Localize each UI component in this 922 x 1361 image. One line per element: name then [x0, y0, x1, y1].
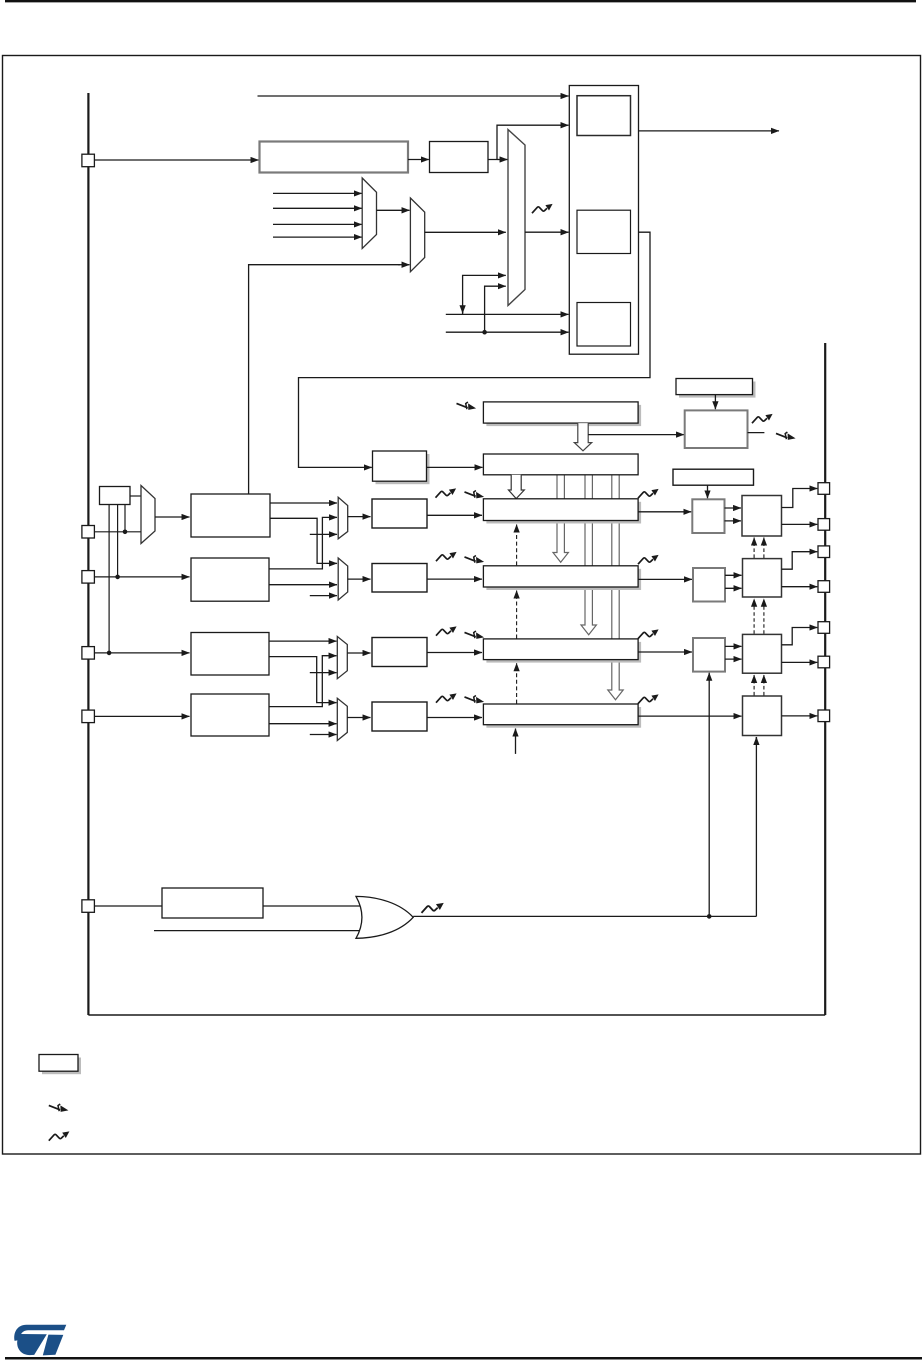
box: inner register top [577, 96, 631, 136]
wire: row C to T4 [638, 511, 691, 513]
box: T5 output stage [742, 496, 782, 537]
box: F5 output stage [743, 696, 782, 736]
pin square L1 [82, 154, 95, 167]
box: trigger/slave mode controller outer [569, 86, 638, 355]
page top rule [5, 0, 916, 2]
big arrows: row B down to rows D E F [553, 475, 568, 563]
icon: lightning right of T2 [776, 432, 796, 440]
wire: OR gate lower stub input [154, 930, 361, 932]
wire: mux1 to mux2 [377, 209, 410, 211]
mux: TRGI select trapezoid [410, 198, 424, 272]
wire: pin1 to box R1 [95, 159, 259, 161]
dashed pair into E5 bottom [753, 675, 755, 696]
wire: stage3 out1 to mux R3 [269, 640, 337, 642]
icon: wave right of row E [638, 629, 659, 638]
mux: R2 trapezoid [338, 558, 348, 600]
wire: OR output line [413, 915, 756, 917]
wire: internal clock line into trigger controller [258, 95, 569, 97]
wire: stage3 out2 down to mux R4 [269, 657, 328, 703]
legend: register box sample (with shadow) [39, 1055, 81, 1075]
junction dot [482, 330, 487, 335]
pin square L3 [82, 571, 95, 584]
mux: ITR select trapezoid [362, 178, 376, 249]
pin square P6 [818, 656, 830, 668]
wire: stage2 out2 to mux R2 [269, 584, 337, 586]
pin square L2 [82, 526, 95, 539]
wire: D5 out to pin P4 [782, 586, 818, 588]
wire: TRC stub to R3 [310, 672, 337, 674]
left bus rail [87, 93, 89, 1015]
icon: wave right of row C [638, 489, 659, 498]
dashed pair into T5 bottom [753, 538, 755, 559]
wire: R1 to prescaler 1 [348, 516, 371, 518]
wire: stage1 out1 to mux R1 [270, 502, 337, 504]
box: inner register middle [577, 210, 631, 253]
wire: mux2 to big mux [425, 231, 506, 233]
wire: T5 out to pin P2 [782, 523, 818, 525]
box: prescaler 3 [372, 638, 427, 667]
dashed feedback row E to row D [516, 591, 518, 639]
wire: edge line B to big mux [485, 286, 498, 332]
pin square L4 [82, 647, 95, 660]
icon: lightning left of row E [465, 631, 485, 639]
wire: R1 to R2 [408, 159, 429, 161]
dashed pair into D5 bottom [753, 599, 755, 634]
wire: ITR0 [273, 192, 362, 194]
wire: edge line A to big mux [463, 275, 498, 314]
legend: wave icon [49, 1131, 70, 1140]
box: row A register (with shadow) [483, 402, 641, 426]
junction dots on channel lines [107, 651, 112, 656]
wire: XOR taps down [108, 505, 110, 653]
box: T2 (gray border) [685, 410, 748, 448]
icon: wave left of row E [436, 626, 457, 635]
mux: R1 trapezoid [338, 497, 348, 539]
box: E4 (gray border) [693, 638, 725, 672]
wire: stub line 1 into controller [446, 313, 569, 315]
wire: TRC stub to R4 [310, 734, 337, 736]
box: inner register bottom [577, 303, 631, 347]
wire: stage4 out2 to mux R4 [269, 723, 337, 725]
box: small counter box [430, 142, 489, 173]
big arrow: row B to row C [509, 475, 525, 499]
wire: TRC stub to R2 [310, 595, 337, 597]
wire: CH4 line [95, 715, 190, 717]
wire: stage1 out2 down to mux R2 [270, 518, 328, 563]
wire: branch to reload box [588, 434, 684, 436]
wire: prescaler 2 to row D [427, 578, 482, 580]
icon: event wave at big mux [532, 204, 553, 213]
pin square P7 [818, 710, 830, 722]
pin square P1 [818, 483, 830, 495]
big arrow: row A to row B [574, 423, 591, 451]
wire: T1 down to T2 [714, 395, 716, 410]
box: prescaler 1 [372, 499, 427, 528]
box: clock prescaler (gray border) [260, 142, 409, 173]
wire: ETR box to OR gate [263, 905, 360, 907]
wire: controller output arrow right [639, 130, 780, 132]
wire: ETR pin to box [95, 905, 163, 907]
wire: big mux to trigger controller [525, 231, 569, 233]
wire: stage2 out1 up to mux R1 [269, 517, 328, 569]
wire: stub into row F bottom [515, 729, 517, 754]
wire: TRGO box to row B [427, 466, 483, 468]
junction dot on OR output [707, 914, 712, 919]
icon: wave left of row F [436, 693, 457, 702]
wire: OR line up into E4 [708, 673, 710, 917]
bottom bus line [88, 1014, 825, 1016]
icon: lightning left of row D [465, 556, 485, 564]
pin square L5 [82, 710, 95, 723]
box: E5 output stage [743, 634, 782, 673]
wire: stub line 2 into controller [446, 331, 569, 333]
mux: big clock source trapezoid [508, 130, 525, 306]
box: T4 (gray border) [692, 499, 724, 533]
dashed feedback row D to row C [516, 525, 518, 566]
wire: T5 out to pin P1 [782, 489, 811, 508]
mux: R4 trapezoid [337, 698, 347, 740]
wire: prescaler 3 to row E [427, 652, 482, 654]
icon: wave right of T2 [752, 414, 773, 423]
wire: E5 out to pin P6 [782, 661, 818, 663]
legend: lightning icon [49, 1104, 69, 1112]
wire: prescaler 4 to row F [427, 717, 482, 719]
wire: R4 to prescaler 4 [347, 717, 370, 719]
box: D5 output stage [743, 559, 782, 597]
wire: mux L to input stage 1 [155, 516, 190, 518]
wire: R3 to prescaler 3 [347, 652, 370, 654]
wire: E4 to E5 (2) [725, 645, 742, 647]
wire: R2 to prescaler 2 [348, 578, 371, 580]
wire: ITR1 [273, 207, 362, 209]
wire: controller feedback to TRGO box [299, 232, 651, 467]
footer rule [5, 1357, 922, 1360]
right bus rail [824, 343, 826, 1015]
wire: F5 out to pin P7 [782, 715, 818, 717]
gate: OR [356, 896, 413, 938]
box: T1 top register (with shadow) [676, 379, 756, 398]
wire: row D to D4 [638, 578, 692, 580]
box: input stage 4 [191, 694, 269, 736]
box: TRGO register (with shadow) [373, 451, 430, 484]
box: row D capture/compare (with shadow) [483, 566, 641, 590]
wire: XOR to mux L [130, 495, 141, 497]
wire: TRC stub to R1 [310, 533, 337, 535]
wire: CH1 line [95, 531, 142, 533]
box: input stage 1 [191, 494, 270, 537]
pin square P4 [818, 581, 830, 593]
pin square P5 [818, 622, 830, 634]
wire: T3 down to T4 [707, 485, 709, 498]
wire: row E to E4 [638, 651, 692, 653]
dashed feedback row F to row E [516, 663, 518, 703]
wire: R2 output junction [488, 125, 566, 159]
box: row E capture/compare (with shadow) [483, 639, 641, 663]
wire: trigger return riser [249, 265, 400, 494]
icon: wave left of row D [436, 552, 457, 561]
wire: D5 out to pin P3 [782, 552, 811, 570]
box: XOR [100, 487, 131, 505]
wire: ITR2 [273, 223, 362, 225]
box: prescaler 2 [372, 564, 427, 593]
box: row B register [483, 454, 638, 475]
box: row C capture/compare (with shadow) [483, 499, 641, 524]
wire: prescaler 1 to row C [427, 514, 482, 516]
icon: wave left of row C [436, 488, 457, 497]
wire: T4 to T5 (2) [725, 507, 742, 509]
mux: R3 trapezoid [337, 637, 347, 679]
wire: row F to F5 [638, 715, 741, 717]
mux: TI1 select trapezoid [141, 486, 155, 544]
wire: T2 stub right [748, 432, 765, 434]
box: T3 wide register [673, 469, 754, 485]
icon: lightning left of row A [457, 402, 477, 410]
icon: wave on OR output [422, 903, 444, 913]
box: row F capture/compare (with shadow) [483, 704, 641, 728]
box: D4 (gray border) [693, 568, 725, 602]
icon: wave right of row F [638, 694, 659, 703]
box: ETR polarity/edge/prescaler [162, 888, 263, 918]
icon: wave right of row D [638, 555, 659, 564]
wire: E5 out to pin P5 [782, 628, 811, 645]
pin square L6 (ETR) [82, 900, 95, 913]
wire: D4 to D5 (2) [725, 574, 742, 576]
box: input stage 2 [191, 558, 269, 601]
pin square P3 [818, 546, 830, 558]
icon: lightning left of row F [465, 696, 485, 704]
box: input stage 3 [191, 633, 269, 676]
ST logo [14, 1325, 66, 1356]
wire: stage4 out1 up to mux R3 [269, 656, 328, 707]
icon: lightning left of row C [465, 491, 485, 499]
wire: OR line up into F5 [755, 737, 757, 916]
wire: CH2 line [95, 576, 190, 578]
wire: ITR3 [273, 236, 362, 238]
wire: CH3 line [95, 652, 190, 654]
pin square P2 [818, 519, 830, 531]
box: prescaler 4 [372, 702, 427, 731]
